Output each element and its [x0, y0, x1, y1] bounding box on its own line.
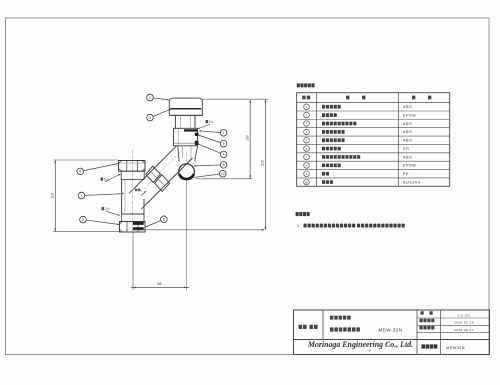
svg-text:4: 4 — [306, 130, 308, 134]
svg-text:215: 215 — [261, 160, 265, 166]
svg-text:1: 1 — [306, 105, 308, 109]
svg-text:10: 10 — [221, 172, 225, 176]
svg-text:5: 5 — [82, 218, 84, 222]
svg-text:7: 7 — [306, 155, 308, 159]
svg-text:EPDM: EPDM — [403, 113, 416, 117]
svg-text:PE: PE — [403, 172, 409, 176]
svg-text:TM: TM — [367, 351, 370, 353]
svg-text:ABS: ABS — [403, 122, 412, 126]
svg-text:CR: CR — [403, 147, 410, 151]
svg-text:1:2 (N): 1:2 (N) — [458, 313, 471, 317]
svg-text:10: 10 — [305, 180, 309, 184]
svg-text:ABS: ABS — [403, 155, 412, 159]
svg-text:88: 88 — [158, 282, 162, 286]
svg-text:8: 8 — [306, 164, 308, 168]
svg-text:9: 9 — [306, 172, 308, 176]
svg-text:7: 7 — [223, 131, 225, 135]
svg-text:1¼: 1¼ — [209, 120, 214, 124]
svg-text:2: 2 — [306, 113, 308, 117]
svg-text:8: 8 — [223, 163, 225, 167]
svg-text:9: 9 — [223, 142, 225, 146]
svg-text:5: 5 — [306, 138, 308, 142]
svg-text:2010.01.16: 2010.01.16 — [454, 321, 474, 325]
svg-text:1.: 1. — [297, 224, 300, 228]
svg-text:2: 2 — [149, 116, 151, 120]
svg-text:ABS: ABS — [403, 139, 412, 143]
svg-text:4: 4 — [223, 153, 225, 157]
svg-text:6: 6 — [163, 218, 165, 222]
svg-text:EPDM: EPDM — [403, 164, 416, 168]
svg-text:SUS304: SUS304 — [403, 180, 421, 184]
svg-text:MDW-32N: MDW-32N — [379, 327, 403, 332]
svg-text:MDW32N: MDW32N — [446, 346, 465, 350]
svg-text:2010.06.07: 2010.06.07 — [454, 328, 474, 332]
svg-text:5: 5 — [79, 170, 81, 174]
svg-text:6: 6 — [306, 147, 308, 151]
svg-text:1: 1 — [149, 96, 151, 100]
svg-text:Morinaga Engineering Co., Ltd.: Morinaga Engineering Co., Ltd. — [307, 340, 413, 349]
svg-text:3: 3 — [80, 194, 82, 198]
svg-text:ABS: ABS — [403, 130, 412, 134]
svg-text:1¼: 1¼ — [105, 207, 110, 211]
svg-text:ABS: ABS — [403, 105, 412, 109]
svg-text:118: 118 — [51, 193, 55, 199]
svg-text:130: 130 — [245, 135, 249, 141]
svg-text:3: 3 — [306, 122, 308, 126]
